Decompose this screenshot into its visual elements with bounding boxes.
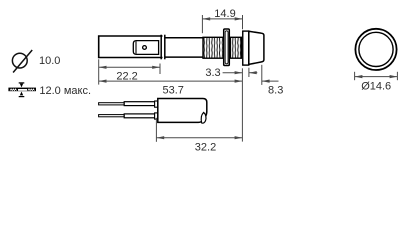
- dimension 32.2 right arrow: [235, 136, 243, 139]
- front view outer circle: [355, 29, 396, 70]
- nut: [224, 29, 230, 66]
- dimension 8.3 extension line at head front: [261, 65, 263, 85]
- lamp lead 2 bare wire: [99, 115, 125, 117]
- panel bar right zigzag: [28, 89, 35, 91]
- dimension Ø14.6 right arrow: [390, 75, 398, 78]
- svg-text:3.3: 3.3: [205, 67, 220, 79]
- panel bar white window: [18, 89, 27, 91]
- dimension 22.2 line: [99, 66, 160, 68]
- threaded bushing rear: [203, 37, 224, 58]
- svg-text:12.0 макс.: 12.0 макс.: [39, 85, 91, 97]
- body rear housing: [99, 36, 163, 58]
- dimension 14.9 left arrow: [202, 17, 210, 20]
- bezel flange: [243, 31, 249, 65]
- nut inner contour: [225, 31, 228, 64]
- svg-text:10.0: 10.0: [39, 55, 60, 67]
- panel bar left zigzag: [10, 89, 17, 91]
- dimension Ø14.6 line: [355, 76, 398, 78]
- dimension 22.2 left arrow: [99, 66, 107, 69]
- latch inner edge: [135, 41, 137, 54]
- dimension 8.3 arrow with tail: [262, 80, 279, 82]
- lamp tip seal: [201, 112, 206, 123]
- dimension 53.7 left arrow: [99, 80, 107, 83]
- svg-text:32.2: 32.2: [195, 141, 216, 153]
- bezel head: [249, 31, 264, 64]
- dimension 32.2 left arrow: [156, 136, 164, 139]
- lamp pinch tab 2: [155, 113, 158, 119]
- collar line 1: [160, 35, 162, 60]
- dimension Ø14.6 right extension line: [396, 72, 398, 80]
- white background: [0, 0, 412, 159]
- panel thickness top arrow: [19, 82, 25, 84]
- dimension 3.3 right arrow with tail: [249, 72, 257, 74]
- dimension 53.7 line: [99, 80, 243, 82]
- front view inner circle: [359, 32, 393, 66]
- panel thickness symbol bar: [8, 88, 36, 92]
- dimension 32.2 line: [156, 137, 242, 139]
- threaded bushing front: [230, 37, 241, 58]
- dimension 14.9 extension line right: [242, 15, 244, 29]
- mounting hole diameter symbol circle: [12, 50, 32, 73]
- body front section: [166, 38, 203, 57]
- dimension Ø14.6 left arrow: [355, 75, 363, 78]
- dimension 22.2 / 53.7 shared left extension line: [98, 59, 100, 84]
- lamp lead 1 bare wire: [99, 103, 125, 105]
- dimension 22.2 right extension line: [159, 64, 161, 75]
- lamp lead 1 sleeve: [124, 102, 158, 106]
- dimension 14.9 line: [202, 18, 242, 20]
- dimension 14.9 right arrow: [235, 17, 243, 20]
- dimension 3.3 right extension line: [248, 68, 250, 77]
- collar line 2: [164, 35, 166, 60]
- panel thickness bottom arrow: [20, 92, 23, 96]
- lamp capsule body: [158, 99, 207, 123]
- long extension line at flange face: [241, 68, 243, 141]
- svg-text:Ø14.6: Ø14.6: [361, 81, 391, 93]
- dimension 53.7 right arrow: [235, 80, 243, 83]
- latch circle: [143, 46, 147, 50]
- dimension 3.3 left arrow with tail: [223, 72, 243, 74]
- dimension 14.9 extension line left: [201, 15, 203, 33]
- dimension 32.2 left extension line: [155, 118, 157, 142]
- dimension 22.2 right arrow: [152, 66, 160, 69]
- lamp lead 2 sleeve: [124, 114, 158, 118]
- svg-text:53.7: 53.7: [162, 85, 183, 97]
- svg-text:8.3: 8.3: [268, 85, 283, 97]
- lamp pinch tab 1: [155, 101, 158, 107]
- svg-text:14.9: 14.9: [214, 8, 235, 20]
- dimension Ø14.6 left extension line: [354, 72, 356, 80]
- latch window: [133, 41, 158, 55]
